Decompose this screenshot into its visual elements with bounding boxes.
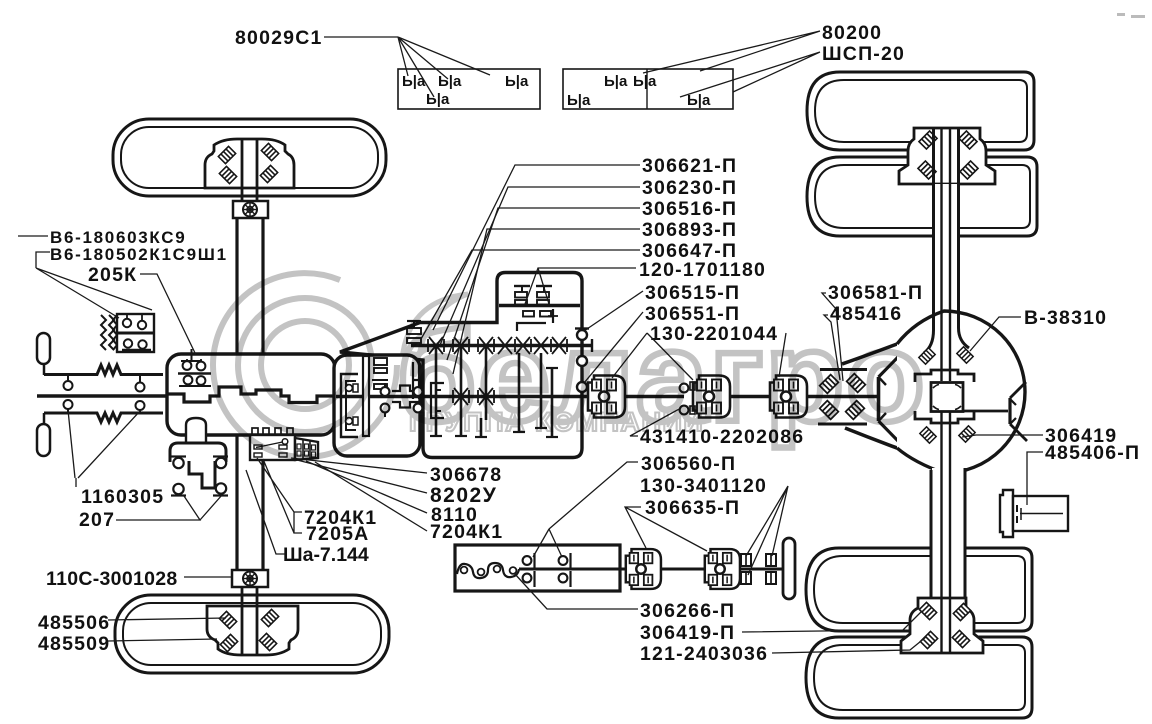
watermark leaf (403, 294, 468, 355)
differential bearings (919, 348, 935, 364)
fastener strip left (398, 69, 540, 109)
front tire bottom (115, 595, 389, 673)
flexible link wave (457, 563, 519, 578)
transfer box gear pair 1 (514, 285, 530, 287)
svg-text:207: 207 (79, 509, 115, 531)
kingpin gear box bottom (232, 570, 268, 587)
spare part 485406 flange (1000, 490, 1013, 537)
svg-text:Ь|а: Ь|а (567, 92, 591, 109)
svg-text:485506: 485506 (38, 612, 110, 634)
clutch pressure plate bracket (341, 374, 358, 437)
rear axle input housing bars (820, 368, 867, 371)
input shaft step coupler (392, 386, 420, 408)
svg-text:306621-П: 306621-П (642, 155, 737, 177)
watermark swirl circle (213, 273, 397, 457)
svg-text:485406-П: 485406-П (1045, 442, 1140, 464)
crankshaft stepped line (167, 387, 335, 403)
engine cylinders (186, 359, 188, 361)
svg-text:80029С1: 80029С1 (235, 27, 323, 49)
output pin circles column (575, 327, 589, 329)
rear dual tire 3 (806, 548, 1032, 631)
brake shaft centerline (519, 568, 625, 571)
clutch small rects (374, 358, 387, 365)
axle funnel curves (842, 344, 897, 364)
axle bottom rail with spring zigzag (44, 413, 163, 422)
svg-text:80200: 80200 (822, 22, 882, 44)
svg-text:306515-П: 306515-П (645, 282, 740, 304)
kingpin shaft front wheels (235, 218, 238, 570)
svg-text:306635-П: 306635-П (645, 497, 740, 519)
brake pin pair 1 (523, 556, 532, 565)
svg-text:Ь|а: Ь|а (426, 91, 450, 108)
idler I-bars (518, 353, 521, 432)
differential carrier (915, 370, 974, 382)
C bracket synchro (431, 383, 444, 418)
gear rects below transfer box (523, 311, 534, 317)
kingpin gear box top 110C (233, 201, 268, 218)
svg-text:В6-180502К1С9Ш1: В6-180502К1С9Ш1 (50, 245, 228, 264)
svg-text:306266-П: 306266-П (640, 600, 735, 622)
engine mount cylinder (186, 418, 206, 444)
oil filler mark on engine (191, 349, 193, 361)
svg-text:120-1701180: 120-1701180 (639, 259, 766, 281)
handbrake driveline box (455, 545, 620, 591)
svg-text:Ь|а: Ь|а (604, 73, 628, 90)
coupler pins (414, 387, 423, 396)
brake drum flange (783, 538, 795, 599)
rear differential housing (897, 311, 1025, 473)
svg-text:1160305: 1160305 (81, 486, 164, 508)
fastener strip right (563, 69, 733, 109)
tie rod pin bottom-right (136, 401, 145, 410)
svg-text:306419-П: 306419-П (640, 622, 735, 644)
rear hub bottom (901, 598, 983, 653)
universal joint U5 (705, 549, 740, 589)
tie rod pin top-left (67, 375, 69, 382)
svg-text:Ь|а: Ь|а (438, 73, 462, 90)
clutch release pins (384, 383, 386, 387)
svg-text:7204К1: 7204К1 (430, 521, 503, 543)
svg-text:ШСП-20: ШСП-20 (822, 43, 905, 65)
axle centerline (37, 394, 168, 397)
universal joint U1 (588, 376, 625, 418)
svg-text:Ь|а: Ь|а (633, 73, 657, 90)
front hub top (205, 139, 294, 188)
differential cross square (931, 383, 963, 412)
svg-text:110С-3001028: 110С-3001028 (46, 568, 178, 590)
bearing plate B6 (117, 314, 154, 352)
rear axle neck upper (934, 184, 959, 336)
svg-text:306581-П: 306581-П (828, 282, 923, 304)
front hub bearings (218, 146, 235, 163)
axle vertical link (43, 364, 46, 375)
svg-text:130-3401120: 130-3401120 (640, 475, 767, 497)
gearbox housing (340, 273, 582, 458)
gearshift side unit (295, 438, 318, 460)
rear dual tire 2 (807, 157, 1037, 236)
engine mount bracket (170, 443, 226, 462)
clutch housing (334, 355, 420, 456)
leaf spring pack (101, 315, 106, 350)
universal joint U3 (770, 376, 807, 418)
svg-text:Ь|а: Ь|а (402, 73, 426, 90)
reverse gear fork (413, 362, 419, 399)
svg-text:Ь|а: Ь|а (687, 92, 711, 109)
svg-text:ГРУППА КОМПАНИЙ: ГРУППА КОМПАНИЙ (409, 406, 704, 437)
engine block (167, 354, 335, 435)
tie rod end capsule top (37, 333, 50, 364)
svg-text:Ь|а: Ь|а (505, 73, 529, 90)
upper shaft gear crosses (428, 337, 567, 354)
axle top rail with spring zigzag (44, 365, 163, 375)
small gear rects left top (407, 328, 421, 334)
rear dual tire 1 (807, 72, 1034, 150)
lower shaft gear crosses (453, 388, 494, 405)
svg-text:306560-П: 306560-П (641, 453, 736, 475)
brake pin pair 2 (559, 556, 568, 565)
svg-text:205К: 205К (88, 264, 137, 286)
svg-text:306230-П: 306230-П (642, 177, 737, 199)
rear axle neck lower (932, 468, 964, 600)
propshaft segments (620, 395, 684, 399)
corner specks (1117, 13, 1125, 16)
differential right output (963, 410, 1008, 413)
spline bearing pair B (766, 554, 776, 566)
svg-text:В-38310: В-38310 (1024, 307, 1107, 329)
tie rod end capsule bottom (37, 424, 50, 456)
universal joint U4 center bearing (626, 549, 661, 589)
rear hub top (899, 128, 995, 184)
WATERMARK (213, 273, 927, 457)
svg-text:121-2403036: 121-2403036 (640, 643, 768, 665)
spline bearing pair A (741, 554, 751, 566)
svg-text:306893-П: 306893-П (642, 219, 737, 241)
spline pins before U2 (680, 384, 689, 393)
front hub bottom (207, 606, 298, 655)
rear dual tire 4 (806, 637, 1032, 718)
svg-text:7205А: 7205А (306, 523, 369, 545)
transfer box gear pair 2 (536, 285, 552, 287)
upper gear shaft (411, 344, 592, 348)
tie rod pin bottom-left (64, 400, 73, 409)
universal joint U2 (693, 376, 730, 418)
gear web verticals (435, 346, 438, 436)
svg-text:Ша-7.144: Ша-7.144 (283, 544, 369, 566)
transfer top box separator (499, 304, 580, 307)
gearshift control box (252, 428, 258, 435)
pinion crown bar (877, 377, 881, 421)
svg-text:306516-П: 306516-П (642, 198, 737, 220)
svg-text:306678: 306678 (430, 464, 502, 486)
clutch flywheel bar (363, 356, 369, 436)
svg-text:485509: 485509 (38, 633, 110, 655)
front tire top (113, 119, 386, 196)
lower gear shaft centerline (336, 395, 591, 399)
tie rod pin top-right (139, 375, 141, 383)
rear axle input bearings (820, 375, 839, 394)
